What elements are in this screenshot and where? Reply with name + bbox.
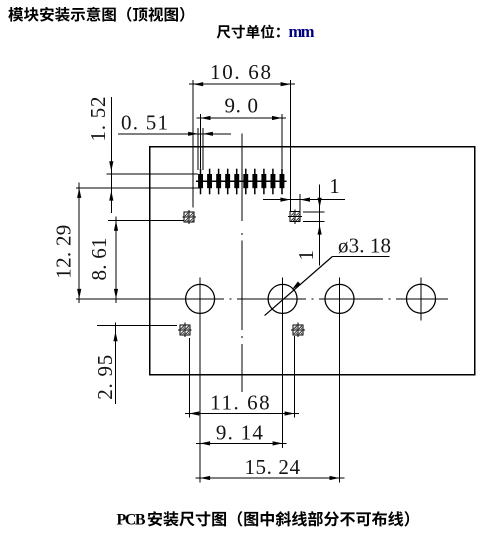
svg-text:mm: mm [289,22,315,41]
dimension 10.68 top [189,60,295,212]
locating pad upper-left [182,210,196,224]
dimension 2.95 lower-left [93,323,177,405]
title: module installation diagram (top view) [8,7,184,22]
svg-text:ø3. 18: ø3. 18 [338,233,391,257]
hole diameter leader ø3.18 [265,233,391,315]
hole H1 centerline extending to bottom dims [199,278,201,483]
svg-text:2. 95: 2. 95 [93,355,117,400]
mounting hole H2 [268,284,297,313]
hole H2 centerline extending to 9.14 dim [282,278,284,448]
svg-text:1: 1 [294,250,318,260]
svg-text:9. 0: 9. 0 [224,94,258,118]
svg-text:8. 61: 8. 61 [87,238,111,281]
hole H3 centerline extending to 15.24 dim [339,278,341,483]
pin pads P1-P10 with wire line [196,169,287,195]
svg-text:11. 68: 11. 68 [210,390,270,414]
hole H4 centerline tick [420,278,422,321]
svg-text:1: 1 [329,174,340,198]
svg-text:10. 68: 10. 68 [210,60,271,84]
PCB module outline rectangle [150,147,475,375]
mounting hole H1 [186,284,215,313]
locating pad upper-right [288,209,302,223]
dimension 0.51 pin width [118,111,231,171]
dimension 8.61 left [87,217,184,304]
subtitle: dimension unit mm [217,22,315,41]
locating pad lower-right [291,323,305,337]
dimension 9.0 pin row span [197,94,287,169]
locating pad lower-left [178,323,192,337]
svg-text:PCB: PCB [117,511,146,528]
dimension 1 pad width [263,174,345,211]
dimension 11.68 bottom [185,336,299,418]
dimension 9.14 bottom [196,420,287,445]
bottom caption: PCB mounting dimensions [117,511,410,528]
dimension 12.29 left [52,183,82,304]
dimension 1 pad height [294,185,324,266]
mounting hole H4 [407,284,436,313]
vertical center line through pin row [241,134,243,392]
horizontal center line through mounting holes [76,298,448,300]
dimension 1.52 pin pad height [76,97,200,214]
svg-text:15. 24: 15. 24 [244,455,300,479]
mounting hole H3 [325,284,354,313]
svg-text:1. 52: 1. 52 [86,97,110,142]
svg-text:12. 29: 12. 29 [52,225,76,279]
dimension 15.24 bottom [196,455,345,480]
